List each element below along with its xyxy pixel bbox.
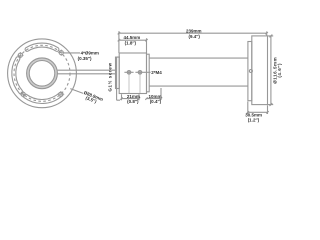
arc slot bottom [24,92,63,103]
pendant tube bottom line [149,85,248,87]
projection line upper (to side view) [58,69,116,71]
center hole outer ring [27,58,58,89]
svg-text:(4.6″): (4.6″) [277,63,282,78]
svg-text:4*Ø9mm: 4*Ø9mm [81,50,99,55]
small hole on flange [249,70,252,73]
base body (side view) [119,53,146,94]
projection line lower (to side view) [58,73,116,75]
svg-text:(1.8″): (1.8″) [125,41,137,46]
dim 239mm line with ticks [118,32,268,34]
leader 2xM4 [144,71,150,73]
screw hole lower-left [20,91,27,97]
dim 10mm extension line [160,88,162,100]
center hole thread shading [28,59,56,87]
dim 44.5mm: extension lines [119,31,147,53]
svg-text:(0.8″): (0.8″) [127,99,139,104]
outer circle of mounting plate (front view) [8,39,77,108]
dim 21mm line with ticks [120,97,140,99]
screw hole upper-right [58,49,65,55]
joint ring [147,54,150,92]
arc slot left [12,57,23,94]
M4 screw left [124,71,133,94]
end cap disc (side view) [252,36,268,105]
svg-text:21mm: 21mm [127,94,140,99]
dim D116.5mm extension lines [268,36,274,105]
dim 30.5mm line with ticks [247,111,269,113]
M4 screw right [135,71,144,94]
svg-text:(0.35″): (0.35″) [78,56,92,61]
svg-text:44.5mm: 44.5mm [124,35,141,40]
arc slot top [25,43,59,51]
screw hole lower-right [57,91,64,97]
svg-text:2*M4: 2*M4 [151,70,162,75]
leader for hole label [63,52,80,54]
svg-text:(9.4″): (9.4″) [188,34,200,39]
svg-text:239mm: 239mm [186,29,202,34]
thread collar (side view) [116,57,120,88]
end flange plate [248,42,252,101]
dim 21mm extension lines [122,94,140,100]
dim D116.5mm line with ticks [270,35,273,107]
dim 30.5mm extension lines [248,102,268,115]
svg-text:G1½ screw: G1½ screw [106,62,112,91]
dim 239mm extension right [266,31,268,36]
pendant tube top line [149,57,248,59]
screw hole upper-left [17,52,24,58]
svg-text:(0.4″): (0.4″) [150,99,162,104]
center hole inner ring (G1 1/2 thread) [29,61,55,87]
leader for bolt-circle label [70,89,83,94]
svg-text:10mm: 10mm [148,94,161,99]
bolt circle (dashed) [14,45,70,101]
svg-text:(1.2″): (1.2″) [248,118,260,123]
dim 10mm line with ticks [145,97,162,99]
dim 44.5mm line with ticks [118,39,148,41]
bracket for thread collar [117,57,120,100]
